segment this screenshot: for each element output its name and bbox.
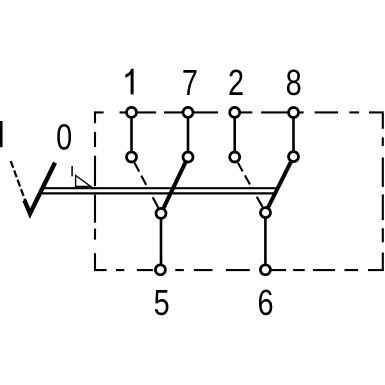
svg-text:5: 5	[154, 282, 170, 323]
svg-text:8: 8	[286, 62, 302, 103]
svg-text:2: 2	[228, 62, 244, 103]
svg-text:6: 6	[257, 282, 273, 323]
svg-text:0: 0	[56, 116, 72, 157]
svg-text:7: 7	[182, 62, 198, 103]
